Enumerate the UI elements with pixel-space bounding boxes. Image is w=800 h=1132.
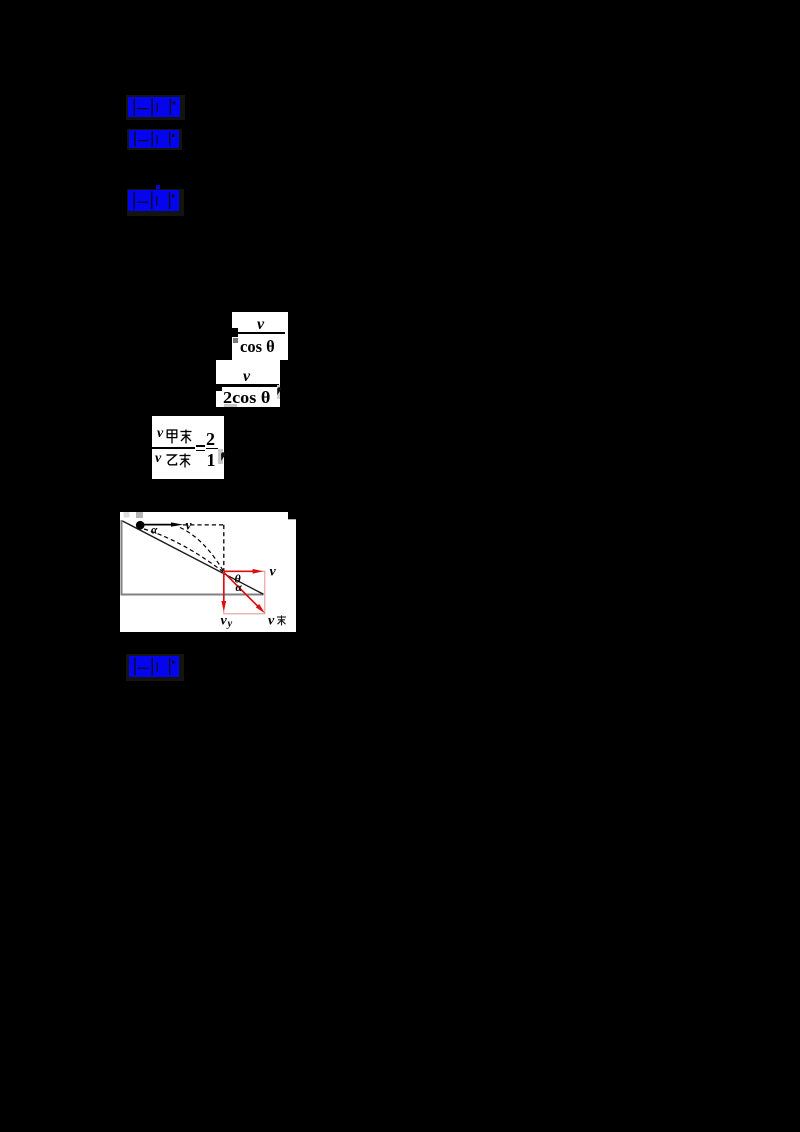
dashed trajectory (parabola)	[180, 528, 224, 572]
red resultant arrow v_mo	[224, 572, 258, 606]
blue label 4 【点睛】	[126, 654, 184, 681]
dashed chord	[144, 529, 223, 572]
black notch top-right	[288, 512, 296, 519]
grey patch right edge of box 3	[218, 449, 223, 464]
white background of figure	[120, 512, 296, 632]
comma after box 2	[274, 386, 284, 397]
initial velocity arrow v	[144, 524, 173, 526]
svg-text:v: v	[268, 614, 275, 629]
equals sign	[196, 445, 205, 447]
末 top	[180, 429, 192, 444]
artifact: equals fragment left of box 1	[232, 328, 238, 337]
diagram: projectile on incline	[120, 512, 296, 632]
blue label 2 【解析】	[127, 129, 182, 150]
blue label 1 【答案】	[126, 95, 185, 120]
formula box 2: v/2cosθ	[216, 360, 280, 407]
末 glyph for v_mo	[277, 615, 286, 625]
grey left wall	[121, 520, 123, 595]
red parallelogram rectangle	[224, 571, 265, 614]
末 bottom	[179, 453, 191, 468]
grey artifact squares top-left	[124, 512, 130, 518]
incline	[123, 521, 264, 594]
formula box 1: v/cosθ	[232, 312, 288, 360]
甲 top	[166, 429, 178, 444]
formula box 3: v甲末/v乙末 = 2/1	[152, 416, 224, 479]
red horizontal velocity arrow v	[224, 570, 254, 572]
fraction bar box 3	[152, 447, 195, 449]
grey strip bottom of box 2	[224, 404, 237, 407]
blue label 3 【详解】	[156, 185, 160, 191]
svg-text:y: y	[226, 619, 233, 630]
svg-text:α: α	[151, 525, 158, 537]
comma after box 3	[220, 451, 230, 463]
grey strip right edge of box 2	[277, 385, 280, 399]
ball	[136, 521, 145, 530]
dashed vertical line	[223, 525, 225, 572]
svg-text:v: v	[270, 565, 277, 580]
乙 bottom	[165, 453, 178, 468]
2 over 1	[206, 429, 215, 450]
artifact: equals fragment left of box 2	[216, 384, 222, 391]
svg-text:α: α	[236, 582, 243, 594]
dashed horizontal line	[183, 524, 224, 526]
grey ground line	[121, 594, 264, 596]
svg-text:v: v	[221, 614, 228, 629]
red vertical velocity arrow vy	[223, 572, 225, 602]
